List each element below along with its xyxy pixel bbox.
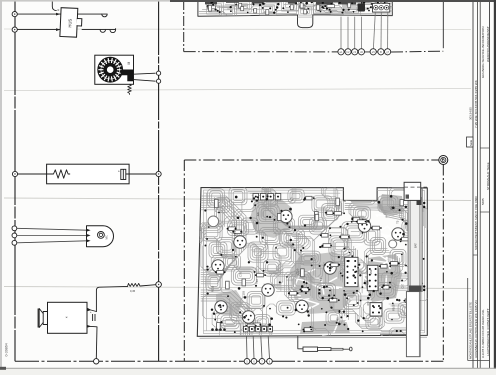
bottom socket 1 [244,359,250,365]
middle bus wire x158.6 [158,0,160,361]
svg-text:5685: 5685 [481,198,485,205]
svg-text:0,45: 0,45 [130,289,136,293]
amp output pin top [87,309,96,312]
fold line y288 [4,287,471,289]
telescopic antenna body [303,347,318,351]
wire fuse to node [126,173,156,175]
bottom border wire y361 [15,360,443,362]
socket circle 4 [358,49,364,55]
trimmer feed traces [375,0,377,4]
coil L1 [128,283,140,286]
svg-text:B: B [442,158,445,163]
node H1 [12,12,17,17]
svg-text:0-39864: 0-39864 [5,343,9,356]
microphone pins [87,229,91,232]
fold line y89 [4,89,471,91]
PCB copper pour areas [250,198,292,238]
board bottom connector block [244,326,249,332]
svg-text:R215: R215 [210,285,214,292]
main PCB board outline [197,188,427,337]
wire board to antenna [298,336,303,349]
svg-text:SICHERHEITSBEST. NACH VDE 0860: SICHERHEITSBEST. NACH VDE 0860 [474,196,478,250]
trimmer capacitor 2 [379,6,383,10]
socket circle 6 [378,49,384,55]
svg-text:LAUTSPRECHER 4 OHM 5 WATT: LAUTSPRECHER 4 OHM 5 WATT [486,308,490,356]
svg-text:M: M [127,62,131,65]
dash-dot vertical x443 lower [442,165,444,362]
socket circle 3 [352,49,358,55]
bottom socket 3 [259,359,265,365]
svg-text:R41: R41 [233,231,237,236]
top strip mini loop clusters [207,0,361,18]
resistor zigzag [52,170,70,178]
switch HUS body [60,8,82,38]
electrolytic capacitor (black) on strip [358,4,366,12]
wire node to resistor [18,173,52,175]
battery contact strip (gray) [408,189,422,292]
Seite box [467,137,474,147]
svg-text:Seite: Seite [469,139,473,146]
microphone capsule [98,232,105,239]
node R1 left [12,171,17,176]
node speaker right [156,282,162,288]
battery strip bottom contact [409,286,422,292]
top connector row on board [253,194,259,200]
node H2 [12,27,17,32]
bottom socket 4 [267,359,273,365]
svg-text:303.34/35: 303.34/35 [469,107,473,120]
amp output pin bottom [87,325,97,328]
node R1 right [156,171,161,176]
wire HUS right bottom with open socket [82,29,116,31]
PCB transistors [280,210,292,222]
socket circle 7 [385,49,391,55]
dashed board edge behind box [404,186,427,188]
narrow holder box below strip [406,292,420,357]
svg-text:BAT: BAT [414,243,418,248]
fold line y199 [4,198,471,201]
svg-text:C57: C57 [401,283,405,288]
svg-text:9.1178 0-39864 003 AB WERK-NR.: 9.1178 0-39864 003 AB WERK-NR. [481,309,485,358]
top page edge light part [0,0,193,2]
socket circle 1 [338,49,344,55]
resistor box R1 [47,164,130,184]
svg-text:100: 100 [390,206,394,211]
motor M1 box [95,55,134,84]
output amplifier box [48,302,88,333]
top strip copper traces [199,0,419,16]
right page edge dark line [494,0,496,370]
board bottom inner trace [200,337,428,338]
motor rotor disc [97,57,123,83]
antenna segment 3 [331,348,343,350]
antenna segment 2 [318,348,331,351]
wire node H1 to HUS [17,13,60,15]
PCB IC blocks [345,257,358,286]
svg-text:HUS: HUS [67,18,72,27]
loudspeaker [43,312,47,325]
board bottom-left pads [211,328,214,331]
svg-text:R160: R160 [336,317,340,324]
left bus wire x15 [14,0,16,361]
PCB small components [409,328,413,336]
open plug J [110,29,116,33]
node MIC2 [12,233,17,238]
right vertical wire x443 top [442,2,444,48]
svg-text:MIC: MIC [106,235,109,240]
svg-text:C120: C120 [296,268,300,275]
node MIC3 [12,240,17,245]
margin rule 1 [472,0,474,368]
square box top right [404,182,421,200]
svg-text:R93: R93 [369,269,373,274]
trimmer capacitor 1 [374,6,378,10]
wire motor to node M1a [134,73,156,74]
wire coil to node [140,285,156,286]
trimmer capacitor 3 [384,6,388,10]
node M1b [157,79,161,83]
coil below motor [128,84,132,94]
top strip cut components (dark bars at top edge) [205,0,217,4]
edge pads right margin [423,202,425,204]
mic wires [17,228,87,230]
node M1a [157,71,161,75]
coupling capacitor [92,314,94,321]
wire HUS right top with open socket [77,13,107,15]
holder connecting wire [380,333,406,335]
svg-text:D3: D3 [319,277,323,281]
left page edge [0,0,2,375]
top PCB strip board outline [198,0,392,28]
frame line left vertical x184 [183,0,185,52]
svg-text:WERKSKUNDENDIENST: WERKSKUNDENDIENST [486,26,490,62]
svg-text:GRUNDIG SERVICE-INFORMATION: GRUNDIG SERVICE-INFORMATION [481,27,485,78]
svg-text:22n: 22n [256,211,260,216]
top page edge dark line [170,0,496,2]
PCB trace maze [201,188,405,336]
svg-text:7.95 WIE 303.34/35 504.34/35 W: 7.95 WIE 303.34/35 504.34/35 WK [474,79,478,128]
margin rule 4 [489,0,491,368]
svg-text:c: c [58,8,60,12]
socket circle 2 [345,49,351,55]
svg-text:STROMLAUF TEILE: STROMLAUF TEILE [486,162,490,190]
mounting hole 1 [208,216,219,227]
antenna tip ball [350,347,353,351]
frame line horizontal y51 with dash-dot [184,51,338,53]
trimmer box on strip [373,3,390,12]
wires trimmer box to sockets [373,12,375,49]
margin separator ticks [473,254,478,256]
wires board to bottom sockets [246,336,249,359]
svg-text:R108: R108 [392,304,396,311]
wire from top to switch HUS [52,0,56,11]
wire strip to socket row [340,17,342,49]
antenna tip rod [343,348,350,350]
dash-dot vertical x184 lower [183,160,185,361]
dash-dot horizontal y160 to node B [184,159,438,161]
svg-text:UKW/MW/LW-AUTOSUPER WK 2495 VD: UKW/MW/LW-AUTOSUPER WK 2495 VD [474,299,478,358]
svg-text:MONTAGEANLEITUNG ERSATZTEILLI: MONTAGEANLEITUNG ERSATZTEILLISTE [469,302,473,359]
top strip inner edge trace [200,12,391,15]
wire amp up to y287 [96,286,127,311]
svg-text:D7: D7 [219,304,223,308]
battery strip top contact [417,197,422,205]
top strip component pads [342,9,344,11]
thermal fuse symbol [121,169,126,179]
socket circle 5 [370,49,376,55]
wire node H2 to HUS [17,29,60,31]
socket row connecting line [338,51,392,53]
top strip small components [318,5,321,11]
svg-text:C88: C88 [366,279,370,284]
bottom left corner dark mark [0,367,6,370]
PCB pads [270,317,273,320]
node bottom [94,359,99,364]
margin rule 3 [479,0,481,368]
margin col0 rule lower [467,278,469,361]
svg-text:C76: C76 [239,272,243,277]
wire amp down to bottom node [95,327,98,359]
bottom page cut line [0,367,496,369]
svg-text:T12: T12 [255,279,259,284]
fold line y29 [4,28,471,31]
bottom socket 2 [251,359,257,365]
motor brush contact (black bracket) [121,70,134,82]
mounting hole 2 [389,240,397,248]
wire motor to node M1b [134,80,156,82]
svg-text:C103: C103 [241,291,245,298]
svg-text:470: 470 [366,301,370,306]
node B circled [439,156,448,165]
svg-text:+: + [118,170,120,174]
node MIC1 [12,226,17,231]
svg-text:4k7: 4k7 [323,262,327,267]
margin rule 2 [477,0,479,368]
microphone body [87,226,114,247]
